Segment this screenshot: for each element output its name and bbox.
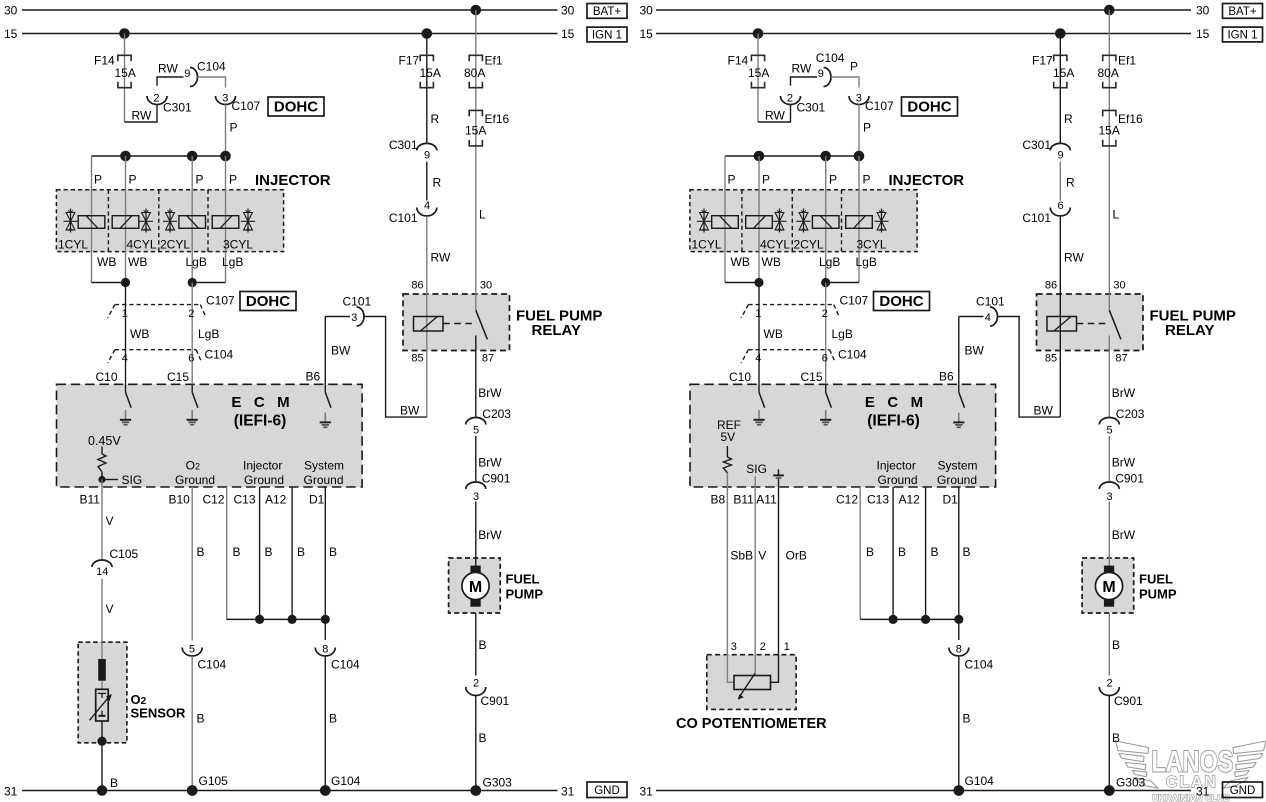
wire in O2 sensor <box>101 681 103 690</box>
svg-text:C104: C104 <box>197 59 226 73</box>
connector C901 pin 2 <box>1099 678 1143 709</box>
wire BW to relay 85 <box>998 317 1061 418</box>
connector C107 pins 1-2 <box>741 294 868 321</box>
label REF 5V <box>717 418 741 444</box>
svg-text:C101: C101 <box>389 211 418 225</box>
svg-text:4CYL: 4CYL <box>760 237 790 251</box>
svg-text:P: P <box>863 172 871 186</box>
wire B6 up <box>958 317 960 385</box>
svg-text:R: R <box>1064 112 1073 126</box>
svg-text:L: L <box>1113 207 1120 221</box>
svg-text:LgB: LgB <box>198 327 219 341</box>
svg-text:P: P <box>94 172 102 186</box>
svg-text:P: P <box>129 172 137 186</box>
wire to G104 <box>324 656 326 791</box>
label B (D1) <box>329 545 337 559</box>
svg-text:RELAY: RELAY <box>1165 322 1214 339</box>
wire bus 31 <box>22 790 558 792</box>
ECM box <box>57 384 363 487</box>
svg-text:SbB: SbB <box>730 549 753 563</box>
svg-text:C301: C301 <box>163 100 192 114</box>
label B (A12) <box>297 545 305 559</box>
svg-text:P: P <box>230 120 238 134</box>
label PUMP <box>506 587 544 602</box>
wire R <box>426 162 428 201</box>
svg-text:30: 30 <box>480 280 492 292</box>
svg-text:1: 1 <box>122 308 128 320</box>
junction C13 <box>889 615 898 624</box>
resistor REF 5V <box>723 446 731 487</box>
label SIG (right) <box>746 462 767 476</box>
node IGN 1 <box>587 27 627 42</box>
wire to G104 <box>958 656 960 791</box>
svg-text:System: System <box>938 459 978 473</box>
node BAT+ <box>1223 4 1263 19</box>
svg-text:C15: C15 <box>167 370 189 384</box>
svg-text:F17: F17 <box>1032 53 1053 67</box>
potentiometer wiper <box>738 673 755 700</box>
svg-text:B: B <box>110 776 118 790</box>
wire F17 feed <box>426 34 428 144</box>
svg-text:2: 2 <box>473 678 479 690</box>
svg-text:C10: C10 <box>96 370 118 384</box>
svg-text:P: P <box>863 120 871 134</box>
svg-text:C104: C104 <box>838 347 867 361</box>
svg-text:M: M <box>1102 579 1115 596</box>
label R 1 <box>431 112 440 126</box>
svg-text:DOHC: DOHC <box>274 99 318 116</box>
svg-text:3: 3 <box>473 491 479 503</box>
svg-text:G104: G104 <box>965 774 995 788</box>
svg-text:BrW: BrW <box>478 455 502 469</box>
svg-text:30: 30 <box>4 4 18 18</box>
svg-text:Ground: Ground <box>175 473 215 487</box>
node label 30 left <box>4 4 18 18</box>
pin D1 <box>943 492 959 506</box>
wire LgB drop <box>825 283 827 385</box>
label B (G105) <box>197 712 205 726</box>
svg-text:B8: B8 <box>711 492 726 506</box>
wire join 2-3CYL <box>826 282 859 284</box>
svg-text:G104: G104 <box>331 774 361 788</box>
label pot pin 3 <box>731 641 737 653</box>
svg-text:WB: WB <box>97 255 116 269</box>
svg-text:Ground: Ground <box>878 473 918 487</box>
watermark LANOS CLAN logo <box>1116 741 1266 788</box>
svg-text:2: 2 <box>787 92 793 104</box>
wire injector feed 2 <box>125 156 127 283</box>
wire BrW 2 <box>1108 436 1110 482</box>
svg-text:C12: C12 <box>836 492 858 506</box>
svg-text:1CYL: 1CYL <box>58 237 88 251</box>
svg-text:P: P <box>229 172 237 186</box>
label B (pump) <box>1112 638 1120 652</box>
svg-text:V: V <box>106 514 114 528</box>
node label 30 right <box>1196 4 1210 18</box>
label P 3 <box>196 172 204 186</box>
wire RW jumper <box>125 104 158 122</box>
svg-text:B: B <box>866 545 874 559</box>
svg-text:GND: GND <box>594 785 620 797</box>
svg-text:3: 3 <box>222 92 228 104</box>
svg-text:4: 4 <box>985 312 991 324</box>
junction G104 bus <box>954 785 965 796</box>
svg-text:B: B <box>963 712 971 726</box>
wire BrW 2 <box>475 436 477 482</box>
wire join 2-3CYL <box>192 282 225 284</box>
svg-text:O2: O2 <box>186 459 200 473</box>
junction O2 bus <box>97 785 108 796</box>
svg-text:5: 5 <box>1107 424 1113 436</box>
wire RW to relay <box>426 216 428 417</box>
svg-text:B: B <box>233 545 241 559</box>
label B11 V 1 <box>106 514 114 528</box>
svg-text:1: 1 <box>784 641 790 653</box>
svg-text:Ground: Ground <box>244 473 284 487</box>
svg-text:BW: BW <box>400 403 420 417</box>
node DOHC (mid) <box>240 292 296 311</box>
label (IEFI-6) <box>234 412 287 429</box>
svg-text:C15: C15 <box>801 370 823 384</box>
svg-text:30: 30 <box>561 4 575 18</box>
wire B6 to C101 <box>325 316 350 318</box>
svg-text:G303: G303 <box>1116 776 1146 790</box>
pin C12 <box>836 492 858 506</box>
injector 3CYL <box>212 209 255 252</box>
junction C13 <box>255 615 264 624</box>
svg-text:3CYL: 3CYL <box>857 237 887 251</box>
svg-text:R: R <box>433 175 442 189</box>
svg-text:FUEL: FUEL <box>506 572 540 587</box>
wire C301-2 to C104-9 <box>791 77 818 86</box>
svg-text:RW: RW <box>431 250 451 264</box>
node G104 <box>954 774 995 796</box>
connector C104 pins 4-6 <box>741 347 867 364</box>
wire SIG stub <box>754 476 756 487</box>
label SIG <box>106 473 143 487</box>
svg-text:31: 31 <box>561 785 575 799</box>
label System Ground <box>937 459 978 487</box>
svg-text:85: 85 <box>1045 352 1057 364</box>
svg-text:3: 3 <box>1107 491 1113 503</box>
wire RW to relay <box>1059 216 1061 417</box>
node G303 <box>471 776 513 796</box>
resistor 0.45V <box>98 447 106 480</box>
label B (C13) <box>265 545 273 559</box>
label RELAY <box>1165 322 1214 339</box>
junction rail/2CYL <box>187 151 198 162</box>
svg-text:PUMP: PUMP <box>506 587 544 602</box>
svg-text:15: 15 <box>561 27 575 41</box>
pin D1 <box>309 492 325 506</box>
fuse F14 15A <box>94 53 136 87</box>
svg-text:C203: C203 <box>1116 407 1145 421</box>
node GND <box>1223 782 1263 798</box>
connector C101 pin 4 (BW) <box>976 294 1005 326</box>
relay switch <box>1109 294 1121 351</box>
svg-text:LgB: LgB <box>222 255 243 269</box>
wire injector rail <box>92 155 226 157</box>
label O2 SENSOR <box>131 692 187 720</box>
label R 2 <box>1066 175 1075 189</box>
wire B11 V <box>101 487 103 561</box>
label Injector Ground <box>243 459 284 487</box>
junction rail/F14 <box>754 151 765 162</box>
label 0.45V <box>88 434 121 448</box>
svg-text:C203: C203 <box>482 407 511 421</box>
svg-text:C901: C901 <box>1115 471 1144 485</box>
svg-text:C901: C901 <box>481 694 510 708</box>
wire 87 drop <box>475 351 477 418</box>
svg-text:BrW: BrW <box>1112 528 1136 542</box>
svg-text:80A: 80A <box>1098 66 1119 80</box>
junction on bus 15 (F17) <box>1055 28 1066 39</box>
svg-text:15A: 15A <box>748 66 769 80</box>
pin C13 <box>867 492 889 506</box>
node label 30 right <box>561 4 575 18</box>
wire SIG to B11 <box>101 480 103 488</box>
wire to G105 <box>191 656 193 791</box>
junction G105 bus <box>187 785 198 796</box>
label B (G303) <box>479 731 487 745</box>
wire ground rail <box>860 618 959 620</box>
svg-text:B: B <box>329 712 337 726</box>
wire P drop <box>858 105 860 157</box>
svg-text:87: 87 <box>1115 352 1127 364</box>
label CO POTENTIOMETER <box>676 716 827 732</box>
node label 31 right <box>561 785 575 799</box>
svg-text:B6: B6 <box>306 369 321 383</box>
svg-text:M: M <box>469 579 482 596</box>
svg-text:PUMP: PUMP <box>1139 587 1177 602</box>
svg-text:9: 9 <box>184 68 190 80</box>
label Injector Ground <box>877 459 918 487</box>
svg-text:WB: WB <box>764 327 783 341</box>
svg-text:E C M: E C M <box>231 394 289 411</box>
svg-text:C101: C101 <box>976 294 1005 308</box>
CO potentiometer box <box>707 655 796 710</box>
svg-text:C101: C101 <box>343 294 372 308</box>
svg-text:L: L <box>479 207 486 221</box>
svg-text:INJECTOR: INJECTOR <box>255 172 331 189</box>
svg-text:31: 31 <box>1196 785 1210 799</box>
label B (D1) <box>963 545 971 559</box>
fuse F17 15A <box>399 53 441 87</box>
svg-text:IGN 1: IGN 1 <box>592 30 622 42</box>
svg-text:9: 9 <box>818 68 824 80</box>
connector C101 pin 3 (BW) <box>343 294 372 326</box>
svg-text:R: R <box>1066 175 1075 189</box>
ECM ground (C15 pin) <box>187 384 198 424</box>
label B11 V 2 <box>106 602 114 616</box>
svg-text:RW: RW <box>765 109 785 123</box>
label LgB 1 <box>186 255 207 269</box>
label BrW 2 <box>1112 455 1136 469</box>
junction 4CYL <box>121 278 130 287</box>
pin B11 (right) <box>733 492 754 506</box>
connector C104 pin 8 <box>949 643 994 671</box>
svg-text:2CYL: 2CYL <box>794 237 824 251</box>
svg-text:IGN 1: IGN 1 <box>1227 30 1257 42</box>
wire D1 <box>958 487 960 619</box>
svg-text:15: 15 <box>640 27 654 41</box>
svg-text:B6: B6 <box>939 369 954 383</box>
node label 15 left <box>640 27 654 41</box>
label RW 2 <box>1064 250 1084 264</box>
node label 15 left <box>4 27 18 41</box>
svg-text:B10: B10 <box>169 492 191 506</box>
svg-text:E C M: E C M <box>865 394 923 411</box>
label BrW 3 <box>478 528 502 542</box>
svg-text:3CYL: 3CYL <box>223 237 253 251</box>
ECM ground (B6 pin) <box>953 384 964 427</box>
wire O2 to bus <box>101 721 103 791</box>
svg-text:BW: BW <box>965 343 985 357</box>
svg-text:4: 4 <box>424 200 430 212</box>
svg-text:F14: F14 <box>728 53 749 67</box>
svg-text:BrW: BrW <box>478 528 502 542</box>
fuse F14 15A <box>728 53 770 87</box>
svg-text:RW: RW <box>1064 250 1084 264</box>
svg-text:LgB: LgB <box>186 255 207 269</box>
pin B8 <box>711 492 726 506</box>
label 87 <box>1115 352 1127 364</box>
svg-text:D1: D1 <box>943 492 959 506</box>
label pot pin 1 <box>784 641 790 653</box>
label C10 <box>96 370 118 384</box>
fuse Ef1 80A <box>1098 53 1137 87</box>
connector C104 pin 8 <box>315 643 360 671</box>
connector C107 pin 3 <box>849 92 894 113</box>
svg-text:BrW: BrW <box>1112 455 1136 469</box>
injector block box <box>690 190 917 252</box>
fuse F17 15A <box>1032 53 1074 87</box>
fuel pump motor <box>1095 558 1122 607</box>
label (IEFI-6) <box>867 412 920 429</box>
node GND <box>587 782 627 798</box>
wire 87 drop <box>1108 351 1110 418</box>
svg-text:30: 30 <box>640 4 654 18</box>
svg-text:5: 5 <box>473 424 479 436</box>
O2 sensor cell <box>90 689 112 721</box>
svg-text:V: V <box>106 602 114 616</box>
fuel pump relay box <box>1037 294 1144 351</box>
wire B6 up <box>324 317 326 385</box>
svg-text:0.45V: 0.45V <box>88 434 121 448</box>
wire BrW 3 <box>1108 502 1110 559</box>
svg-text:C12: C12 <box>203 492 225 506</box>
svg-text:A12: A12 <box>265 492 287 506</box>
label B (C12) <box>233 545 241 559</box>
label B (C13) <box>898 545 906 559</box>
svg-text:F17: F17 <box>399 53 420 67</box>
node label 30 left <box>640 4 654 18</box>
svg-text:15A: 15A <box>1099 123 1120 137</box>
svg-text:B: B <box>197 712 205 726</box>
label O2 Ground <box>175 459 215 487</box>
wire RW jumper <box>758 104 791 122</box>
svg-text:(IEFI-6): (IEFI-6) <box>867 412 920 429</box>
label BW 1 <box>965 343 985 357</box>
pin A12 <box>899 492 921 506</box>
node label 31 left <box>640 785 654 799</box>
label V (pot) <box>758 549 766 563</box>
ECM box <box>690 384 996 487</box>
wire F14 feed <box>757 34 759 123</box>
label LgB 1 <box>819 255 840 269</box>
svg-text:B11: B11 <box>80 492 101 506</box>
svg-text:SENSOR: SENSOR <box>131 705 187 720</box>
wire injector feed 4 <box>858 156 860 283</box>
svg-text:C104: C104 <box>331 657 360 671</box>
node label 15 right <box>561 27 575 41</box>
junction G303 bus <box>1104 785 1115 796</box>
ground A11 <box>773 469 784 487</box>
svg-text:31: 31 <box>4 785 18 799</box>
node DOHC (top) <box>268 97 324 116</box>
wire join 1-4CYL <box>725 282 759 284</box>
connector C301 pin 9 <box>1022 138 1070 161</box>
label System Ground <box>304 459 345 487</box>
label LgB 3 <box>832 327 853 341</box>
wire ground rail <box>227 618 326 620</box>
label BrW 3 <box>1112 528 1136 542</box>
junction A12 <box>921 615 930 624</box>
label B (C12) <box>866 545 874 559</box>
junction A12 <box>288 615 297 624</box>
svg-text:WB: WB <box>128 255 147 269</box>
ECM ground (C15 pin) <box>820 384 831 424</box>
label P (top chain) <box>850 60 858 74</box>
svg-text:C901: C901 <box>482 471 511 485</box>
label RW (jumper) <box>132 109 152 123</box>
label P (drop) <box>863 120 871 134</box>
connector C901 pin 3 <box>1099 471 1144 503</box>
label FUEL PUMP <box>1150 307 1236 324</box>
svg-text:C13: C13 <box>867 492 889 506</box>
svg-text:WB: WB <box>130 327 149 341</box>
svg-text:2: 2 <box>760 641 766 653</box>
svg-text:R: R <box>431 112 440 126</box>
svg-text:6: 6 <box>1058 200 1064 212</box>
svg-text:5: 5 <box>189 643 195 655</box>
wire C301-2 to C104-9 <box>157 77 184 86</box>
label 87 <box>482 352 494 364</box>
wire bus 15 <box>22 33 558 35</box>
label B6 <box>306 369 321 383</box>
svg-text:2: 2 <box>188 308 194 320</box>
svg-text:CO POTENTIOMETER: CO POTENTIOMETER <box>676 716 827 732</box>
connector C203 pin 5 <box>1099 407 1145 437</box>
pin A12 <box>265 492 287 506</box>
junction D1 <box>954 615 963 624</box>
label WB 2 <box>128 255 147 269</box>
node label 15 right <box>1196 27 1210 41</box>
connector C301 pin 2 <box>147 92 192 114</box>
wire Ef feed <box>1108 10 1110 294</box>
svg-text:B: B <box>479 638 487 652</box>
svg-text:B: B <box>329 545 337 559</box>
svg-text:9: 9 <box>424 149 430 161</box>
label P 1 <box>94 172 102 186</box>
injector 2CYL <box>160 209 206 252</box>
junction on bus 30 <box>471 5 482 16</box>
svg-text:C901: C901 <box>1114 694 1143 708</box>
svg-text:BrW: BrW <box>1112 386 1136 400</box>
svg-text:15A: 15A <box>1053 66 1074 80</box>
wire to G303 <box>1108 696 1110 791</box>
svg-text:DOHC: DOHC <box>879 293 923 310</box>
